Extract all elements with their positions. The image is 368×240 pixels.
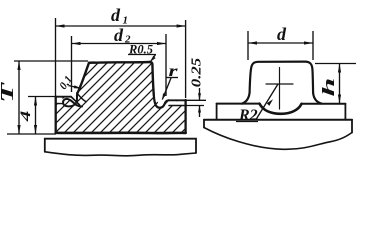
svg-text:T: T — [0, 82, 17, 103]
svg-text:h: h — [319, 78, 338, 97]
svg-text:r: r — [169, 62, 178, 80]
svg-text:d: d — [114, 25, 124, 45]
svg-text:0.25: 0.25 — [189, 57, 204, 87]
svg-text:R0.5: R0.5 — [128, 43, 153, 57]
svg-text:R2: R2 — [238, 107, 258, 124]
svg-text:d: d — [277, 24, 287, 44]
svg-text:4: 4 — [17, 111, 33, 123]
svg-text:1: 1 — [123, 15, 129, 27]
svg-text:d: d — [111, 5, 121, 25]
